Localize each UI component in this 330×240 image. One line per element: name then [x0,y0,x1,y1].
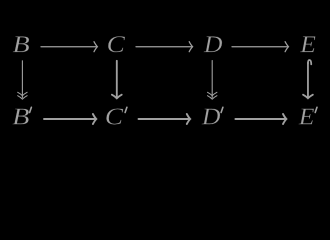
node B' [12,109,28,125]
node D [204,36,222,52]
prime of E' [315,107,317,112]
arrow C' to D' [139,114,191,124]
two-headed epi arrow B to B' [18,61,27,99]
prime of C' [125,107,127,112]
node D' [202,109,220,125]
two-headed epi arrow D to D' [208,61,217,100]
node E [300,36,316,52]
arrow D' to E' [235,114,286,124]
prime of D' [221,107,223,112]
arrow B to C [41,42,97,52]
arrow D to E [232,42,289,52]
node C [108,36,125,52]
arrow C to D [136,42,193,52]
arrow B' to C' [44,114,96,124]
node C' [106,108,123,124]
node E' [299,109,315,125]
prime of B' [30,107,32,112]
arrow C to C' [112,61,122,99]
node B [13,36,29,52]
hook mono arrow E to E' [303,60,313,98]
